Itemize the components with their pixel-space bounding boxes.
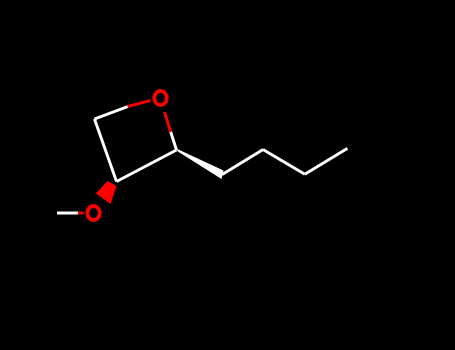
bond Ca-Cb	[222, 150, 263, 175]
bond O2-CH3 white part (methyl line)	[57, 212, 78, 215]
wedge bond C3-O2 (red solid wedge to methoxy)	[96, 181, 117, 204]
bold wedge bond C2-Ca (stereo wedge to butyl chain)	[177, 149, 224, 179]
bond O1-C2 white part	[171, 132, 177, 150]
bond Cc-Cd	[305, 148, 348, 174]
bond C4-O1 white part	[95, 107, 129, 120]
bond C4-O1 red part near O1	[128, 101, 151, 107]
bond C2-C3	[117, 150, 177, 182]
bond Cb-Cc	[263, 150, 305, 175]
atom O1 ring oxygen glyph	[154, 91, 166, 105]
atom O2 methoxy oxygen glyph	[87, 206, 99, 220]
bond O1-C2 red part	[165, 112, 172, 133]
bond C4-C3	[95, 119, 117, 182]
bond O2-CH3 red part near O2	[78, 212, 84, 215]
